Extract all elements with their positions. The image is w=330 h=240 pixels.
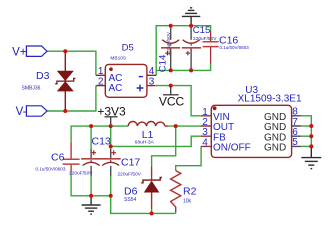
svg-text:GND: GND bbox=[264, 143, 286, 154]
wire V- rail bbox=[47, 86, 96, 111]
wire D6 anode stub bbox=[151, 209, 153, 213]
svg-text:3: 3 bbox=[149, 77, 155, 88]
svg-text:68uH-3A: 68uH-3A bbox=[135, 140, 155, 146]
svg-text:R2: R2 bbox=[183, 186, 197, 198]
wire OUT to D6 cathode bbox=[152, 126, 176, 166]
junction D3 bottom bbox=[63, 109, 67, 113]
wire VCC to VIN bbox=[155, 86, 201, 116]
wire C13 branch bbox=[90, 126, 92, 196]
capacitor C17 bbox=[101, 149, 142, 178]
wire cap-bank bottom bbox=[156, 64, 210, 71]
wire FB to C17 node bbox=[111, 136, 201, 146]
wire bottom return bbox=[111, 196, 176, 214]
bridge rectifier D5 bbox=[96, 42, 156, 97]
junction C14 top bbox=[169, 24, 173, 28]
svg-text:AC: AC bbox=[109, 83, 123, 94]
junction C13 top bbox=[89, 124, 93, 128]
svg-text:C17: C17 bbox=[121, 157, 140, 169]
junction OUT node bbox=[174, 124, 178, 128]
inductor L1 bbox=[128, 122, 168, 146]
junction VCC bbox=[169, 84, 173, 88]
svg-text:C15: C15 bbox=[193, 25, 210, 36]
svg-text:220uF/50V: 220uF/50V bbox=[166, 31, 172, 55]
junction C17 top bbox=[109, 124, 113, 128]
svg-text:SS54: SS54 bbox=[124, 197, 136, 203]
junction C17 bottom bbox=[109, 194, 113, 198]
svg-text:L1: L1 bbox=[142, 129, 154, 141]
capacitor C15 bbox=[182, 25, 217, 70]
ground right bbox=[301, 146, 321, 168]
junction FB tap bbox=[109, 144, 113, 148]
wire L1 to OUT pin bbox=[168, 125, 201, 127]
capacitor C13 bbox=[69, 136, 111, 177]
svg-text:SMBJ36: SMBJ36 bbox=[22, 85, 41, 91]
junction D3 top bbox=[63, 49, 67, 53]
junction C14 bottom bbox=[169, 68, 173, 72]
capacitor C16 bbox=[203, 31, 250, 64]
net flag VCC bbox=[159, 86, 185, 109]
svg-text:D3: D3 bbox=[36, 70, 50, 82]
port V- bbox=[16, 106, 47, 118]
TVS diode D3 bbox=[22, 51, 76, 111]
junction C15 bottom bbox=[189, 68, 193, 72]
ground left bbox=[82, 196, 101, 214]
junction GND bus 6 bbox=[309, 134, 313, 138]
wire C17 branch bbox=[110, 126, 112, 196]
svg-text:220uF/50V: 220uF/50V bbox=[69, 171, 93, 177]
junction C13 bottom bbox=[89, 194, 93, 198]
resistor R2 bbox=[171, 171, 197, 212]
svg-text:5: 5 bbox=[292, 137, 298, 148]
svg-text:10k: 10k bbox=[183, 198, 192, 204]
svg-text:ON/OFF: ON/OFF bbox=[213, 143, 251, 154]
ground top bbox=[182, 8, 200, 26]
wire ground rail bbox=[71, 173, 111, 196]
junction C15 top bbox=[189, 24, 193, 28]
svg-text:C6: C6 bbox=[51, 151, 65, 163]
wire ON/OFF to R2 bbox=[176, 146, 201, 170]
svg-text:0.1u/50V/0603: 0.1u/50V/0603 bbox=[36, 167, 66, 172]
wire V+ rail bbox=[47, 51, 96, 75]
wire R2 bottom stub bbox=[175, 212, 177, 213]
svg-text:0.1u/50V/0603: 0.1u/50V/0603 bbox=[220, 45, 250, 50]
svg-text:V-: V- bbox=[16, 106, 27, 118]
wire +3V3 rail bbox=[71, 126, 128, 142]
capacitor C6 bbox=[36, 142, 80, 172]
svg-text:VCC: VCC bbox=[159, 95, 185, 109]
port V+ bbox=[12, 46, 47, 58]
svg-text:MB10S: MB10S bbox=[110, 55, 126, 61]
capacitor C14 bbox=[158, 26, 181, 72]
svg-text:D6: D6 bbox=[124, 186, 138, 198]
svg-text:D5: D5 bbox=[122, 42, 134, 53]
svg-text:XL1509-3.3E1: XL1509-3.3E1 bbox=[238, 94, 302, 105]
svg-text:220uF/50V: 220uF/50V bbox=[118, 172, 142, 178]
junction D6 anode bbox=[150, 211, 154, 215]
svg-text:C14: C14 bbox=[158, 55, 169, 72]
svg-text:V+: V+ bbox=[12, 46, 27, 58]
regulator U3 bbox=[201, 85, 302, 158]
schottky diode D6 bbox=[124, 167, 162, 210]
wire U3 GND bus bbox=[301, 116, 311, 147]
junction GND bus 5 bbox=[309, 144, 313, 148]
svg-text:C13: C13 bbox=[92, 136, 111, 148]
svg-text:220uF/50V: 220uF/50V bbox=[193, 36, 217, 42]
net flag +3V3 bbox=[97, 105, 126, 126]
svg-text:2: 2 bbox=[98, 77, 104, 88]
wire cap-bank top bbox=[156, 26, 210, 76]
junction GND bus 7 bbox=[309, 124, 313, 128]
svg-text:4: 4 bbox=[202, 137, 208, 148]
